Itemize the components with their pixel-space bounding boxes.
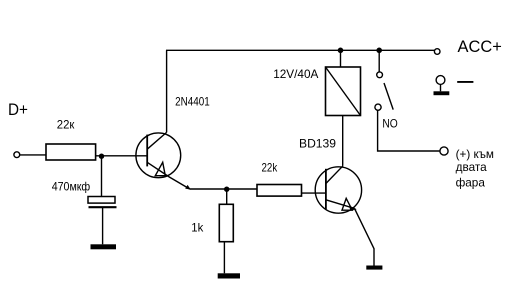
svg-text:фара: фара [456,175,486,189]
svg-text:двата: двата [456,160,487,174]
svg-text:D+: D+ [8,100,28,119]
svg-text:12V/40A: 12V/40A [273,67,318,81]
svg-text:22к: 22к [57,118,75,132]
svg-text:22k: 22k [262,161,279,175]
svg-text:2N4401: 2N4401 [175,95,210,109]
svg-text:BD139: BD139 [299,137,336,151]
svg-text:470мкф: 470мкф [52,179,91,193]
svg-text:ACC+: ACC+ [458,37,502,56]
svg-text:NO: NO [382,117,397,131]
svg-text:1k: 1k [191,220,204,234]
